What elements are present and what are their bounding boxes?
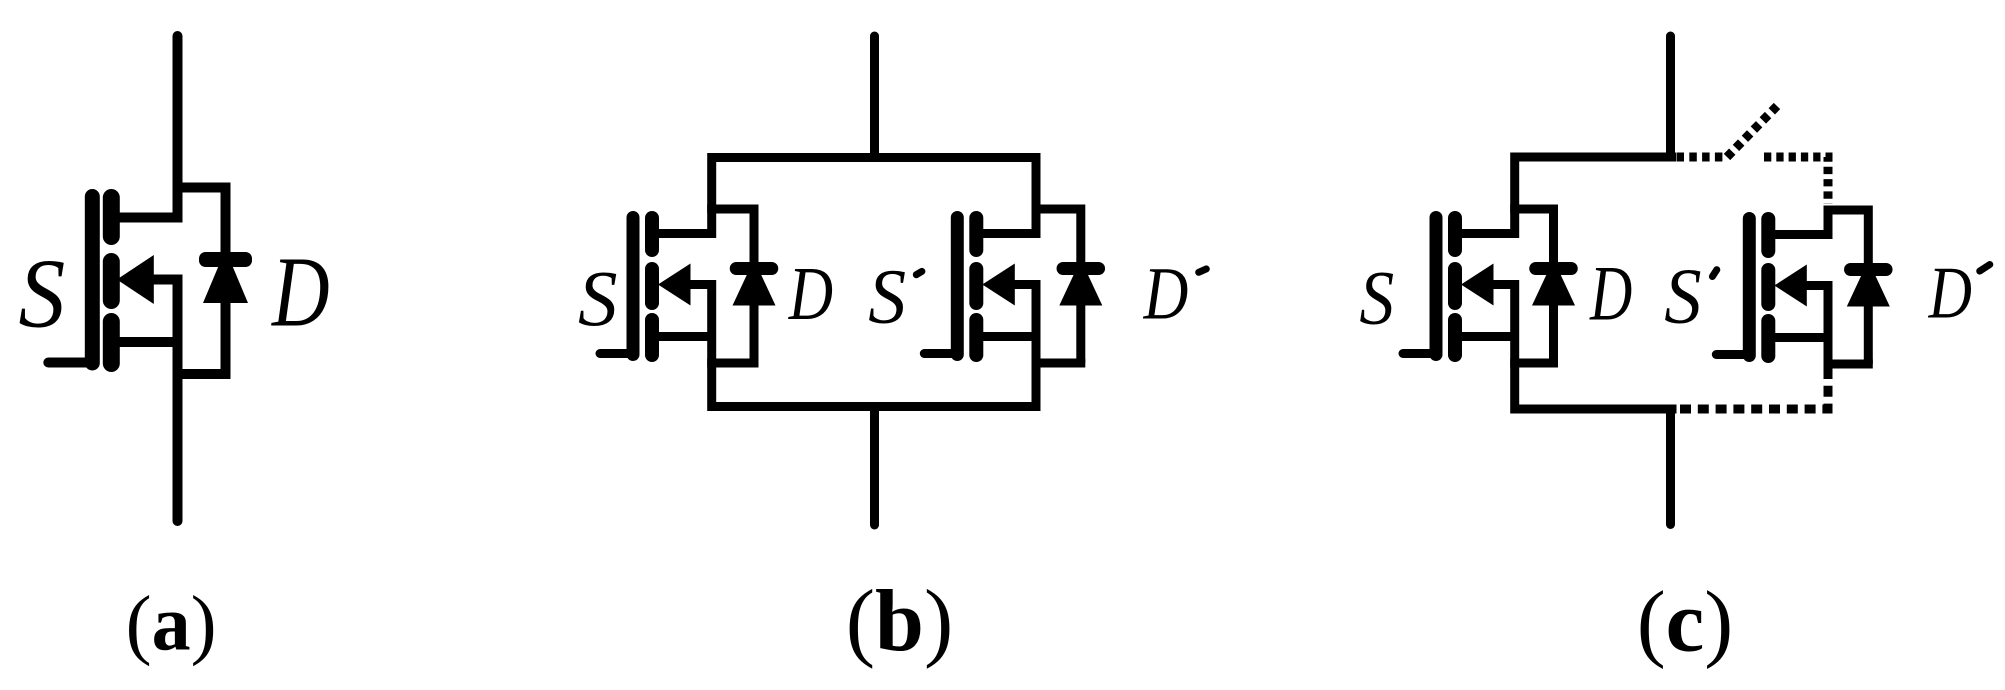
svg-text:(c): (c): [1637, 572, 1734, 669]
svg-text:S: S: [868, 253, 906, 339]
svg-text:S: S: [19, 238, 66, 348]
svg-text:(b): (b): [846, 573, 954, 670]
svg-text:S: S: [1359, 256, 1394, 341]
svg-text:S: S: [1664, 253, 1701, 340]
svg-text:D: D: [788, 251, 833, 336]
svg-text:D: D: [1143, 252, 1189, 335]
svg-text:S: S: [578, 256, 618, 343]
svg-text:D: D: [1589, 251, 1632, 337]
svg-text:D: D: [270, 236, 329, 348]
svg-text:D: D: [1928, 251, 1972, 333]
svg-text:(a): (a): [126, 579, 217, 666]
